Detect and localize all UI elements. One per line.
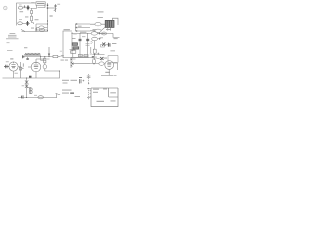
label bbox=[97, 57, 100, 60]
bottom wire bbox=[18, 97, 57, 99]
filter cap C12 bbox=[79, 39, 82, 40]
resistor R9 bbox=[78, 54, 82, 57]
wire bbox=[93, 64, 95, 65]
label bbox=[60, 50, 62, 53]
wire bbox=[92, 53, 104, 60]
T1 core lines bbox=[107, 21, 111, 28]
notes text block bbox=[6, 33, 19, 39]
wire bbox=[71, 56, 89, 58]
label bbox=[64, 29, 70, 30]
resistor R6 bbox=[44, 58, 46, 63]
wire bbox=[101, 58, 103, 60]
electrolytic C15 bbox=[92, 59, 95, 64]
label bbox=[98, 16, 103, 19]
wire bbox=[14, 71, 21, 78]
plus marks bbox=[99, 33, 101, 35]
rail bbox=[71, 32, 73, 53]
capacitor C7 bbox=[26, 58, 28, 59]
wire bbox=[36, 59, 45, 62]
label bbox=[82, 35, 85, 38]
node bbox=[44, 56, 45, 57]
capacitor C14 bbox=[108, 43, 110, 47]
volume control R12 bbox=[70, 57, 72, 68]
wire bbox=[22, 56, 53, 58]
ticks bbox=[87, 76, 91, 78]
winding loop bbox=[29, 88, 32, 91]
parts list row2 bbox=[62, 90, 80, 97]
grid components bbox=[4, 65, 9, 69]
label VR bbox=[50, 16, 53, 17]
node bbox=[71, 32, 74, 35]
plus mark bbox=[22, 68, 23, 69]
label input bbox=[7, 41, 10, 44]
plus bbox=[98, 38, 100, 40]
wire bbox=[41, 57, 46, 61]
node bbox=[86, 32, 89, 35]
capacitor C2 bbox=[27, 5, 29, 10]
tuning gang box bbox=[36, 24, 47, 30]
label bbox=[112, 42, 116, 45]
node bbox=[47, 7, 48, 8]
resistor R3 bbox=[36, 28, 37, 32]
label bbox=[22, 84, 25, 87]
node bbox=[47, 30, 48, 31]
wire bbox=[105, 44, 109, 46]
wire dotted2 bbox=[88, 88, 90, 100]
plus bbox=[97, 53, 99, 55]
oscillator coil L1 bbox=[18, 6, 22, 9]
label bbox=[57, 3, 60, 6]
capacitor C3 bbox=[26, 21, 28, 26]
wire T bbox=[70, 50, 76, 51]
filter box outline bbox=[63, 31, 72, 58]
label bbox=[70, 58, 76, 61]
node bbox=[47, 5, 48, 6]
resistor R10 bbox=[84, 54, 88, 57]
resistor R1 bbox=[31, 10, 33, 13]
label bbox=[114, 37, 118, 40]
resistor R4 bbox=[53, 55, 58, 57]
label speaker bbox=[98, 11, 104, 12]
small box bbox=[101, 44, 105, 47]
filter cap C13 bbox=[86, 39, 89, 40]
chassis hatching bbox=[25, 53, 42, 55]
label bbox=[78, 25, 82, 28]
rectifier plate bbox=[102, 42, 105, 45]
filter choke L9 bbox=[102, 32, 107, 35]
converter block B1 outline bbox=[17, 3, 48, 32]
node bbox=[88, 83, 89, 84]
rail bbox=[87, 34, 89, 58]
taps bbox=[71, 59, 73, 67]
line cord plug bbox=[27, 87, 31, 93]
resistor R11 bbox=[93, 49, 96, 53]
label bbox=[31, 27, 34, 30]
top bus bbox=[72, 33, 90, 35]
resistor R8 bbox=[73, 47, 79, 49]
label bbox=[6, 60, 9, 63]
label V1 bbox=[10, 58, 13, 59]
tick bbox=[95, 56, 97, 58]
wire bbox=[58, 56, 61, 58]
label bbox=[104, 57, 107, 60]
wire bbox=[18, 62, 20, 72]
title block divider bbox=[109, 88, 118, 97]
speaker wire bbox=[113, 18, 119, 25]
title text bbox=[93, 89, 116, 102]
wire plate bbox=[114, 63, 118, 70]
antenna coil L2 bbox=[18, 22, 23, 25]
label bbox=[24, 46, 27, 49]
wire grid lead bbox=[28, 66, 31, 68]
label bbox=[90, 53, 92, 56]
output choke L5 bbox=[95, 29, 101, 32]
label bbox=[15, 72, 18, 75]
node bbox=[26, 97, 27, 98]
label bbox=[25, 16, 28, 19]
pilot lamp L3 bbox=[38, 96, 44, 99]
small box2 bbox=[108, 56, 118, 63]
wire bbox=[22, 22, 30, 24]
node bbox=[47, 24, 48, 25]
capacitor C6 bbox=[23, 55, 24, 58]
edge ticks bbox=[90, 91, 91, 97]
tuning capacitor C4 bbox=[39, 26, 44, 29]
capacitor C16 bbox=[79, 78, 82, 84]
output transformer T1 bbox=[105, 20, 114, 27]
label bbox=[31, 1, 34, 4]
wire AVC bus bbox=[22, 31, 48, 33]
label bbox=[100, 36, 103, 39]
tube V2 envelope bbox=[31, 62, 41, 72]
wire bbox=[94, 41, 96, 49]
label bbox=[35, 18, 39, 21]
title block frame bbox=[91, 88, 118, 107]
vertical bbox=[90, 47, 92, 53]
bottom bus bbox=[63, 57, 94, 59]
wire bbox=[90, 33, 120, 37]
fuse X marks bbox=[25, 80, 28, 87]
wire bbox=[27, 57, 29, 59]
capacitor C9 bbox=[43, 65, 46, 69]
crystal X1 bbox=[100, 57, 104, 60]
resistor R2 bbox=[31, 16, 33, 21]
IF amp connection arrows bbox=[75, 24, 77, 31]
capacitor C11 bbox=[22, 95, 23, 98]
logo bbox=[4, 6, 7, 9]
wire bbox=[45, 57, 60, 79]
wire bbox=[23, 7, 30, 9]
ground bus bbox=[3, 77, 60, 79]
wire bbox=[90, 63, 105, 65]
hatch bbox=[91, 41, 93, 44]
wire bbox=[31, 5, 37, 8]
oscillator label box bbox=[36, 2, 45, 6]
secondary stubs bbox=[108, 28, 111, 31]
label bbox=[73, 32, 77, 35]
node bbox=[58, 70, 61, 73]
wire bbox=[36, 27, 47, 29]
label bbox=[37, 3, 44, 4]
trimmer C1 bbox=[24, 5, 26, 8]
capacitor C17 bbox=[92, 57, 94, 58]
wire bbox=[76, 24, 91, 31]
plus bbox=[83, 80, 85, 82]
padder capacitor C5 bbox=[39, 29, 44, 32]
wire bbox=[32, 23, 34, 24]
label bbox=[106, 28, 111, 31]
label bbox=[34, 94, 37, 97]
dark dash bbox=[70, 93, 74, 94]
wire dotted bbox=[88, 74, 90, 84]
node bbox=[49, 56, 50, 57]
wire with arrow bbox=[48, 47, 50, 57]
coupling coil L8 bbox=[99, 62, 104, 65]
tube V1 electrodes bbox=[11, 62, 15, 68]
wire bbox=[90, 23, 105, 25]
node bbox=[26, 78, 27, 79]
wire bbox=[35, 72, 37, 78]
wire bbox=[38, 4, 46, 8]
label bbox=[105, 72, 110, 73]
wire bbox=[72, 53, 74, 57]
power switch S1 bbox=[26, 78, 28, 98]
wire arm bbox=[72, 63, 90, 65]
label bbox=[58, 93, 61, 96]
capacitor C10 bbox=[29, 76, 32, 77]
marks bbox=[86, 44, 90, 45]
wire bbox=[90, 27, 105, 31]
tube V3 electrodes bbox=[107, 63, 111, 66]
label bbox=[102, 32, 106, 35]
tube V1 envelope bbox=[9, 62, 18, 71]
tube V2 electrodes bbox=[34, 62, 38, 68]
output choke L4 bbox=[95, 23, 101, 26]
ticks bbox=[87, 89, 90, 98]
wire bbox=[109, 45, 111, 47]
label B+ bbox=[61, 55, 64, 56]
arrow bbox=[76, 23, 78, 32]
label bbox=[7, 49, 13, 52]
node bbox=[94, 54, 95, 55]
winding loop bbox=[29, 91, 32, 94]
field coil L6 bbox=[91, 32, 97, 35]
label bbox=[19, 4, 22, 7]
node bbox=[40, 56, 41, 57]
potentiometer VR1 bbox=[54, 4, 57, 12]
label spkr bbox=[61, 59, 64, 62]
node bbox=[79, 32, 82, 35]
label bbox=[80, 55, 88, 58]
rail bbox=[79, 34, 81, 58]
label bbox=[19, 18, 22, 21]
label bbox=[93, 28, 97, 31]
label bbox=[20, 10, 24, 13]
wire cathode bbox=[101, 69, 113, 75]
wire bbox=[31, 8, 33, 22]
label bbox=[80, 31, 86, 34]
resistor R7 bbox=[72, 43, 77, 46]
wire bbox=[48, 7, 56, 9]
resistor R5 bbox=[22, 63, 24, 66]
tube V3 envelope bbox=[105, 61, 114, 70]
marks bbox=[114, 74, 117, 76]
wire stub bbox=[56, 94, 58, 98]
capacitor C8 bbox=[19, 67, 21, 70]
node bbox=[47, 21, 48, 22]
choke L7 bbox=[92, 37, 98, 40]
rectifier box bbox=[71, 51, 76, 54]
parts list row1 bbox=[62, 80, 77, 84]
label bbox=[110, 49, 115, 52]
label bbox=[47, 58, 50, 61]
tick bbox=[72, 38, 76, 40]
